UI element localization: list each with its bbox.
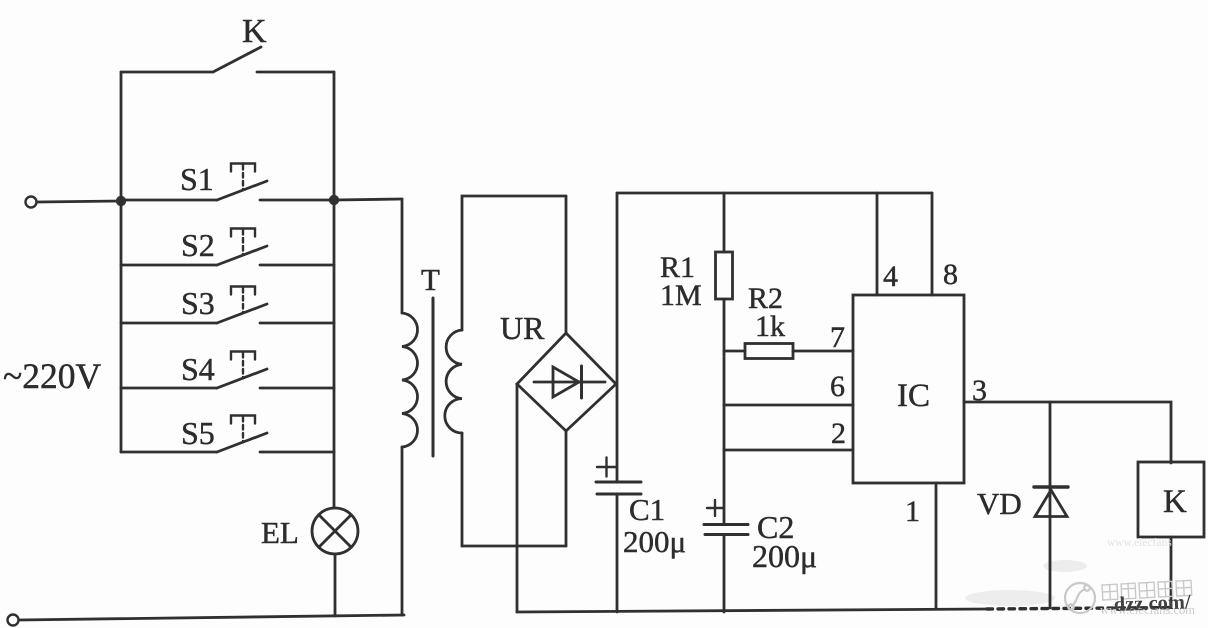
switch S4 <box>121 352 334 389</box>
svg-text:~220V: ~220V <box>3 356 101 396</box>
transformer core <box>432 298 435 456</box>
wire: IC pin 8 to rail <box>931 193 934 295</box>
svg-text:1k: 1k <box>755 310 785 343</box>
svg-text:200μ: 200μ <box>623 524 686 559</box>
watermark chinese text <box>1102 579 1192 600</box>
svg-text:S5: S5 <box>181 415 215 451</box>
wire: secondary bottom lead <box>462 433 566 546</box>
svg-text:VD: VD <box>977 486 1022 521</box>
lamp EL <box>312 508 358 554</box>
resistor R1 <box>716 252 733 299</box>
svg-text:T: T <box>421 262 440 297</box>
svg-text:S3: S3 <box>181 285 215 321</box>
wire: C1 to ground rail <box>616 494 619 612</box>
op-amp/timer IC U1 body <box>853 295 964 483</box>
wire: bridge positive output vertical <box>616 193 619 481</box>
svg-text:K: K <box>242 13 267 50</box>
wire: IC pin 2 <box>724 449 853 452</box>
svg-text:EL: EL <box>261 515 299 550</box>
wire: IC pin 6 <box>724 404 853 407</box>
capacitor C2 <box>704 500 748 535</box>
wire: C2 to ground rail <box>723 535 726 612</box>
bridge rectifier UR body <box>517 333 616 431</box>
svg-text:dzz.com/: dzz.com/ <box>1113 591 1191 616</box>
svg-text:200μ: 200μ <box>752 538 817 574</box>
switch S3 <box>121 287 334 324</box>
svg-text:S2: S2 <box>181 227 215 263</box>
svg-text:6: 6 <box>830 370 845 403</box>
wire: bottom DC ground rail (faded dashed section) <box>987 608 1171 609</box>
svg-text:4: 4 <box>883 260 898 293</box>
relay coil K body <box>1138 462 1204 537</box>
wire: lamp to bottom AC rail <box>334 554 337 616</box>
wire: pin7 branch left <box>724 350 745 353</box>
svg-text:UR: UR <box>500 310 545 346</box>
wire: IC pin 1 to ground rail <box>935 483 938 609</box>
wire: rail to R1 <box>723 193 726 252</box>
svg-text:www.elecfans: www.elecfans <box>1107 537 1172 549</box>
wire: relay K to ground rail <box>1170 537 1173 607</box>
diode VD <box>1034 402 1068 608</box>
terminal: AC input bottom <box>8 615 19 626</box>
wire: bottom DC ground rail <box>517 609 987 612</box>
switch S5 <box>121 416 334 453</box>
node: junction left bus / S1 row <box>116 196 126 206</box>
switch S2 <box>121 229 334 266</box>
svg-text:1: 1 <box>905 495 920 528</box>
wire: bridge negative output to ground rail <box>516 384 519 612</box>
svg-text:S4: S4 <box>181 351 215 387</box>
wire: primary bottom lead <box>401 447 404 615</box>
wire: primary top lead <box>401 199 404 313</box>
transformer T primary winding <box>402 313 418 447</box>
wire: R2 to IC pin 7 <box>793 350 853 353</box>
wire: bottom AC rail <box>19 615 404 620</box>
bridge rectifier UR internal diode <box>534 366 605 398</box>
capacitor C1 <box>596 458 641 495</box>
transformer T secondary winding <box>445 330 462 433</box>
wire: terminal to left bus <box>37 201 121 202</box>
svg-text:C1: C1 <box>629 492 665 527</box>
wire: bridge bottom vertex lead <box>565 431 568 546</box>
wire: right vertical bus <box>333 72 336 452</box>
svg-text:7: 7 <box>830 321 845 354</box>
switch K (relay contact, top row) <box>121 47 334 72</box>
wire: right bus down to lamp <box>333 452 336 508</box>
svg-text:S1: S1 <box>180 161 214 197</box>
wire: IC pin 4 to rail <box>876 193 879 295</box>
wire: IC pin 3 output <box>964 402 1171 463</box>
svg-text:IC: IC <box>897 378 930 414</box>
wire: bridge top vertex to secondary link <box>565 196 568 333</box>
wire: R1 to C2 vertical <box>723 299 726 524</box>
wire: S1 row to transformer primary <box>334 199 402 200</box>
resistor R2 <box>745 344 793 359</box>
svg-text:2: 2 <box>831 417 846 450</box>
svg-text:1M: 1M <box>660 279 702 312</box>
switch S1 <box>121 164 334 201</box>
node: junction right bus / S1 row <box>329 195 339 205</box>
wire: secondary top lead <box>462 196 566 330</box>
svg-text:3: 3 <box>972 374 987 407</box>
svg-text:8: 8 <box>943 258 958 291</box>
wire: left vertical bus <box>120 72 123 452</box>
terminal: AC input top <box>26 197 37 208</box>
watermark logo circle <box>1065 583 1095 613</box>
svg-text:K: K <box>1163 484 1187 520</box>
wire: top DC rail <box>617 192 932 195</box>
